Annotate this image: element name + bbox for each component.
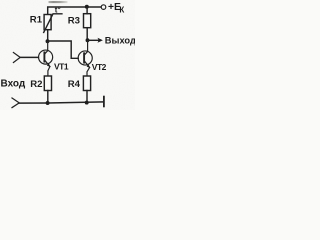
svg-text:R3: R3 [68,15,80,26]
svg-text:t°: t° [55,6,61,15]
node R4 bottom [85,101,89,105]
terminal input arrow bottom [12,98,19,108]
node VT1 collector [46,39,50,43]
svg-text:К: К [119,6,124,15]
output arrowhead [98,38,103,43]
wire R2 bottom [47,91,49,103]
wire bottom rail [19,102,103,103]
wire R3 bottom [86,28,88,41]
wire R4 bottom [86,91,88,103]
wire R3 top [86,7,88,14]
terminal input arrow top [13,53,20,63]
resistor R2 [44,76,51,91]
svg-text:R1: R1 [30,15,43,26]
svg-text:VT1: VT1 [54,62,69,72]
wire top rail [48,7,101,15]
svg-text:VT2: VT2 [92,62,107,72]
wire cross-coupling VT1 collector to VT2 base [48,41,78,58]
resistor R1 (thermistor) [44,15,51,30]
terminal +Ek [101,5,106,10]
svg-text:R2: R2 [30,79,42,90]
resistor R3 [84,14,91,28]
wire output [88,39,99,41]
terminal common end bar [103,97,105,107]
transistor Q1 VT1 [39,41,53,76]
wire R1 bottom [47,30,49,41]
svg-text:Выход: Выход [105,35,135,45]
resistor R4 [83,76,90,91]
transistor Q2 VT2 [78,40,92,76]
node R2 bottom [46,101,50,105]
wire input to VT1 base [20,56,38,58]
node R3 top junction [85,5,89,9]
svg-text:Вход: Вход [1,79,26,90]
svg-text:R4: R4 [68,79,81,90]
node VT2 collector / output [86,38,90,42]
scan artifact bar top [49,1,68,3]
